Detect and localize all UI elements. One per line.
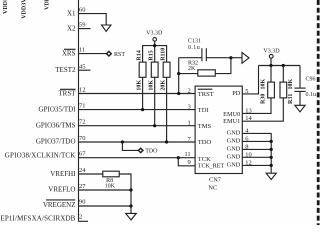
node junction TDO tap — [121, 140, 124, 143]
svg-text:1: 1 — [187, 120, 190, 127]
svg-text:X1: X1 — [67, 9, 76, 17]
svg-text:EMU1: EMU1 — [223, 118, 240, 125]
svg-text:2: 2 — [187, 88, 190, 95]
node junction RC/TRST — [177, 92, 180, 95]
svg-text:2K: 2K — [188, 66, 196, 72]
svg-text:RST: RST — [114, 52, 125, 58]
svg-text:R110: R110 — [160, 48, 166, 61]
node junction R32 left — [177, 72, 180, 75]
svg-text:9: 9 — [187, 159, 190, 166]
svg-text:10K: 10K — [105, 184, 116, 190]
svg-text:TDO: TDO — [145, 148, 158, 154]
wire PD to V3.3D bar — [242, 66, 258, 94]
svg-text:GPIO37/TDO: GPIO37/TDO — [36, 138, 76, 146]
svg-text:VDDIO: VDDIO — [3, 0, 9, 14]
svg-text:12: 12 — [79, 87, 86, 94]
svg-text:GND: GND — [227, 130, 241, 137]
svg-text:45: 45 — [79, 63, 86, 70]
ground (C96) — [295, 105, 305, 112]
svg-text:24: 24 — [79, 167, 86, 174]
svg-text:10K: 10K — [149, 80, 155, 91]
svg-text:V3.3D: V3.3D — [263, 49, 280, 55]
svg-text:67: 67 — [79, 151, 86, 158]
svg-text:10K: 10K — [137, 80, 143, 91]
svg-text:2: 2 — [79, 214, 82, 221]
wire GND10 — [242, 156, 271, 158]
node RST (diamond port) — [107, 51, 112, 56]
wire GND4 — [242, 133, 271, 173]
svg-text:TRST: TRST — [198, 91, 214, 98]
svg-text:27: 27 — [79, 183, 86, 190]
svg-text:10K: 10K — [260, 79, 266, 90]
IC U1 right edge (DSP chip boundary) — [78, 0, 80, 221]
svg-text:72: 72 — [79, 119, 86, 126]
svg-text:C96: C96 — [306, 77, 316, 83]
wire R110 to TDO — [166, 77, 168, 142]
wire TRST net (chip pin 12 to CN7 pin 2) — [79, 93, 196, 95]
svg-text:0.1u: 0.1u — [188, 45, 200, 51]
node junction bar/R31 — [282, 64, 285, 67]
wire TEST2 stub — [79, 69, 91, 71]
ground (X1) — [102, 25, 111, 31]
svg-text:VREFHI: VREFHI — [50, 170, 76, 178]
wire TCK net — [79, 157, 196, 159]
node junction C131/R32 right — [229, 56, 232, 59]
svg-text:60: 60 — [79, 7, 86, 14]
resistor R15 10K — [151, 62, 158, 77]
node junction R15/TMS — [153, 124, 156, 127]
resistor R8 10K — [103, 171, 119, 177]
svg-text:GPIO38/XCLKIN/TCK: GPIO38/XCLKIN/TCK — [5, 151, 76, 159]
svg-text:TRST: TRST — [58, 89, 76, 97]
svg-text:R30: R30 — [260, 94, 266, 104]
svg-text:EQEP1I/MFSXA/SCIRXDB: EQEP1I/MFSXA/SCIRXDB — [0, 214, 76, 222]
wire to port arrow — [231, 57, 242, 59]
node port arrow (off-page, right) — [242, 53, 249, 64]
node junction VREGENZ/rail — [129, 204, 132, 207]
svg-text:GPIO36/TMS: GPIO36/TMS — [36, 122, 76, 130]
wire X1 to ground — [79, 14, 107, 25]
wire XRS to RST port — [79, 53, 107, 55]
wire X2 stub — [79, 28, 91, 30]
resistor R14 10K — [139, 62, 146, 77]
node junction R14/TDI — [141, 108, 144, 111]
svg-text:R15: R15 — [149, 50, 155, 60]
wire TDO net — [79, 141, 196, 143]
svg-text:90: 90 — [79, 199, 86, 206]
svg-text:R14: R14 — [137, 50, 143, 60]
wire R14 to TDI — [142, 77, 144, 109]
wire TCK to TCK_RET (CN7 pin 9) — [178, 158, 195, 166]
ground (VREF rail) — [126, 213, 137, 220]
wire VREFHI to R8 — [79, 173, 103, 175]
wire VREFLO — [79, 189, 132, 191]
svg-text:59: 59 — [79, 22, 86, 29]
node TDO (diamond port) — [138, 148, 143, 152]
svg-text:11: 11 — [79, 47, 85, 54]
svg-text:10K: 10K — [288, 79, 294, 90]
wire TDI net — [79, 109, 196, 111]
wire TMS net — [79, 125, 196, 127]
wire R8 to ground rail — [119, 174, 131, 213]
wire GND8 — [242, 148, 271, 150]
node junction VREFLO/rail — [129, 188, 132, 191]
ground (CN7 GND bus) — [266, 173, 276, 179]
wire TDO tap to port — [122, 142, 138, 150]
svg-text:GPIO35/TDI: GPIO35/TDI — [39, 105, 77, 113]
svg-text:GND: GND — [227, 145, 241, 152]
node junction bar/R15 — [153, 44, 156, 47]
svg-text:TDO: TDO — [198, 139, 212, 146]
wire EMU0 to R30 — [242, 98, 271, 114]
wire RC left vertical to TRST — [178, 58, 180, 94]
svg-text:TEST2: TEST2 — [55, 66, 76, 74]
capacitor C96 0.1u — [299, 66, 301, 88]
svg-text:20K: 20K — [161, 80, 167, 91]
svg-text:TDI: TDI — [198, 107, 209, 114]
wire EQEP stub — [79, 220, 89, 222]
wire EMU1 to R31 — [242, 98, 283, 121]
svg-text:71: 71 — [79, 103, 86, 110]
svg-text:X2: X2 — [67, 24, 76, 32]
svg-text:TCK: TCK — [198, 156, 211, 163]
svg-text:GND: GND — [227, 162, 241, 169]
svg-text:C131: C131 — [188, 39, 201, 45]
node junction R110/TDO — [165, 140, 168, 143]
wire V3.3D bar (right) — [270, 58, 272, 65]
svg-text:NC: NC — [208, 184, 217, 191]
node junction bar/R30 — [269, 64, 272, 67]
svg-text:GND: GND — [227, 153, 241, 160]
svg-text:VREFLO: VREFLO — [48, 186, 75, 194]
svg-text:GND: GND — [227, 138, 241, 145]
svg-text:TCK_RET: TCK_RET — [198, 163, 225, 169]
svg-text:70: 70 — [79, 135, 86, 142]
svg-text:TMS: TMS — [198, 123, 212, 130]
svg-text:R31: R31 — [288, 94, 294, 104]
svg-text:PD: PD — [232, 90, 241, 97]
node junction TCK jog — [177, 156, 180, 159]
svg-text:0.1u: 0.1u — [306, 92, 317, 98]
wire V3.3D stem and bar — [143, 41, 155, 62]
svg-text:CN7: CN7 — [209, 177, 221, 184]
resistor R31 10K — [282, 66, 284, 83]
connector CN7 body — [195, 86, 242, 173]
wire GND12 — [242, 164, 271, 166]
wire VREGENZ — [79, 205, 132, 207]
wire GND6 — [242, 140, 271, 142]
resistor R30 10K — [270, 66, 272, 83]
svg-text:VDDIO: VDDIO — [45, 0, 51, 10]
resistor R110 20K — [163, 62, 170, 77]
svg-text:VDD3VFL: VDD3VFL — [22, 0, 28, 19]
dashed page border — [317, 0, 320, 225]
wire R15 to TMS — [154, 77, 156, 125]
svg-text:3: 3 — [187, 104, 190, 111]
svg-text:XRS: XRS — [62, 49, 76, 57]
svg-text:V3.3D: V3.3D — [146, 31, 163, 37]
svg-text:VREGENZ: VREGENZ — [43, 201, 76, 209]
svg-text:11: 11 — [184, 151, 190, 158]
